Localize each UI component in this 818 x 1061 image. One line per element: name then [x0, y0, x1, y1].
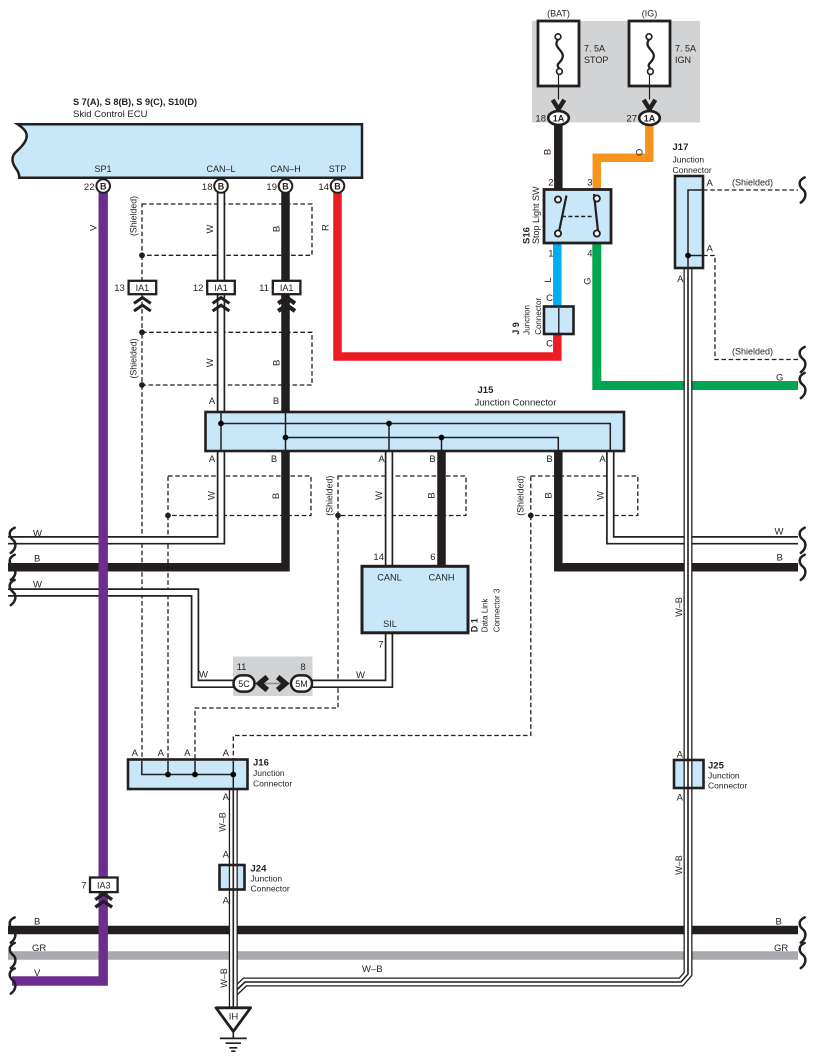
svg-text:G: G [776, 373, 783, 384]
svg-text:W: W [205, 358, 216, 367]
svg-text:R: R [320, 224, 331, 231]
svg-text:2: 2 [548, 178, 553, 189]
svg-text:Stop Light SW: Stop Light SW [531, 186, 541, 244]
svg-text:B: B [271, 493, 282, 499]
svg-text:11: 11 [259, 283, 269, 294]
svg-text:W: W [374, 491, 385, 500]
svg-text:18: 18 [535, 114, 546, 125]
svg-text:7. 5A: 7. 5A [584, 44, 605, 54]
svg-text:B: B [543, 149, 554, 155]
svg-text:B: B [34, 917, 40, 928]
svg-text:B: B [271, 454, 277, 465]
svg-text:6: 6 [430, 552, 435, 563]
svg-text:D 1: D 1 [470, 618, 480, 632]
svg-text:W–B: W–B [218, 812, 228, 832]
svg-text:27: 27 [626, 114, 637, 125]
svg-text:B: B [776, 917, 782, 928]
svg-text:A: A [158, 748, 165, 759]
svg-text:(Shielded): (Shielded) [516, 476, 526, 516]
svg-text:W: W [199, 670, 208, 681]
svg-text:IA3: IA3 [97, 880, 111, 890]
svg-text:(Shielded): (Shielded) [129, 338, 139, 378]
svg-text:Data Link: Data Link [481, 598, 490, 633]
svg-text:W: W [205, 224, 216, 233]
svg-text:14: 14 [373, 552, 384, 563]
svg-text:GR: GR [32, 943, 46, 954]
svg-text:Junction: Junction [523, 305, 532, 335]
svg-text:(Shielded): (Shielded) [129, 196, 139, 236]
svg-text:Junction: Junction [251, 874, 283, 884]
svg-text:W–B: W–B [362, 964, 383, 975]
svg-text:B: B [34, 554, 40, 565]
svg-text:A: A [223, 748, 230, 759]
svg-text:7: 7 [81, 881, 86, 892]
svg-text:W–B: W–B [674, 855, 684, 875]
svg-text:J 9: J 9 [511, 322, 521, 335]
svg-text:C: C [546, 293, 553, 304]
svg-text:Junction: Junction [673, 155, 705, 165]
svg-text:Connector: Connector [673, 165, 712, 175]
svg-text:V: V [34, 968, 41, 979]
svg-text:B: B [218, 181, 225, 191]
svg-text:STP: STP [329, 164, 347, 174]
svg-text:B: B [100, 181, 107, 191]
svg-text:C: C [546, 339, 553, 350]
svg-text:W: W [33, 529, 42, 540]
svg-text:19: 19 [266, 182, 277, 193]
svg-text:O: O [635, 149, 646, 156]
svg-text:L: L [543, 277, 554, 282]
svg-text:B: B [282, 181, 289, 191]
svg-text:5M: 5M [295, 679, 308, 689]
svg-text:B: B [334, 181, 341, 191]
svg-text:Connector: Connector [251, 884, 290, 894]
svg-text:IH: IH [229, 1012, 239, 1023]
svg-text:A: A [209, 454, 216, 465]
svg-text:GR: GR [774, 943, 788, 954]
svg-text:A: A [599, 454, 606, 465]
svg-text:(IG): (IG) [642, 9, 658, 19]
svg-text:A: A [223, 896, 230, 907]
svg-text:(Shielded): (Shielded) [732, 347, 773, 357]
svg-text:W: W [356, 670, 365, 681]
svg-text:W: W [33, 580, 42, 591]
svg-text:W: W [595, 491, 606, 500]
svg-text:(Shielded): (Shielded) [325, 476, 335, 516]
svg-text:B: B [427, 492, 438, 498]
svg-text:3: 3 [587, 178, 592, 189]
svg-text:A: A [223, 792, 230, 803]
svg-text:G: G [583, 277, 594, 284]
svg-text:J16: J16 [253, 758, 269, 769]
svg-text:CAN–H: CAN–H [270, 164, 301, 174]
svg-text:B: B [272, 226, 283, 232]
svg-text:A: A [209, 396, 216, 407]
svg-text:B: B [777, 553, 783, 564]
svg-text:A: A [677, 750, 684, 761]
svg-text:A: A [184, 748, 191, 759]
svg-text:V: V [88, 224, 99, 231]
svg-text:1: 1 [548, 249, 553, 260]
svg-text:A: A [677, 793, 684, 804]
svg-text:B: B [272, 360, 283, 366]
svg-text:(BAT): (BAT) [547, 9, 570, 19]
svg-text:B: B [273, 396, 279, 407]
svg-text:A: A [707, 178, 714, 189]
svg-text:1A: 1A [553, 114, 565, 124]
svg-text:SIL: SIL [383, 619, 397, 629]
svg-text:A: A [378, 454, 385, 465]
svg-text:7: 7 [378, 640, 383, 651]
svg-text:A: A [707, 244, 714, 255]
svg-text:IA1: IA1 [280, 283, 294, 293]
svg-text:B: B [546, 454, 552, 465]
svg-text:CANL: CANL [377, 573, 402, 583]
svg-text:4: 4 [587, 249, 592, 260]
svg-text:14: 14 [318, 182, 329, 193]
svg-text:Connector: Connector [534, 298, 543, 335]
svg-text:IGN: IGN [675, 55, 691, 65]
svg-text:S 7(A), S 8(B), S 9(C), S10(D): S 7(A), S 8(B), S 9(C), S10(D) [73, 97, 197, 107]
svg-text:W: W [207, 491, 218, 500]
svg-text:W–B: W–B [219, 968, 229, 988]
svg-text:Skid Control ECU: Skid Control ECU [73, 109, 148, 120]
svg-text:B: B [429, 454, 435, 465]
svg-text:Connector: Connector [708, 781, 747, 791]
svg-text:W–B: W–B [674, 597, 684, 617]
svg-text:J17: J17 [673, 142, 689, 153]
svg-text:Junction Connector: Junction Connector [475, 398, 557, 409]
svg-text:Connector: Connector [253, 779, 292, 789]
svg-text:12: 12 [193, 283, 204, 294]
svg-text:5C: 5C [238, 679, 250, 689]
svg-text:1A: 1A [644, 114, 656, 124]
svg-text:22: 22 [84, 182, 95, 193]
svg-text:7. 5A: 7. 5A [675, 44, 696, 54]
svg-text:CANH: CANH [428, 573, 454, 583]
svg-text:13: 13 [114, 283, 125, 294]
svg-text:STOP: STOP [584, 55, 608, 65]
svg-text:CAN–L: CAN–L [206, 164, 235, 174]
svg-text:18: 18 [202, 182, 213, 193]
svg-text:IA1: IA1 [136, 283, 150, 293]
svg-text:Connector 3: Connector 3 [492, 588, 501, 632]
svg-text:B: B [544, 492, 555, 498]
svg-text:8: 8 [300, 662, 305, 673]
svg-text:W: W [775, 527, 784, 538]
svg-text:A: A [223, 850, 230, 861]
svg-text:Junction: Junction [708, 771, 740, 781]
svg-text:11: 11 [237, 662, 247, 673]
svg-text:A: A [132, 748, 139, 759]
svg-text:IA1: IA1 [214, 283, 228, 293]
svg-text:J15: J15 [478, 385, 495, 396]
svg-text:A: A [677, 274, 684, 285]
svg-text:Junction: Junction [253, 768, 285, 778]
svg-text:SP1: SP1 [94, 164, 111, 174]
svg-text:(Shielded): (Shielded) [732, 177, 773, 187]
